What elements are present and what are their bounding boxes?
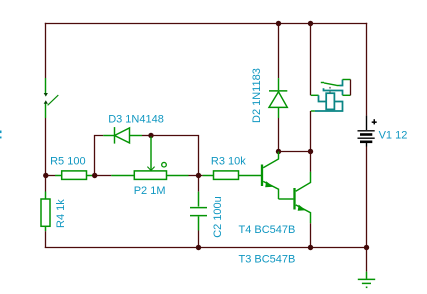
wire left rail lower	[45, 231, 47, 248]
diode D2	[269, 78, 287, 118]
node junction bottom-right	[364, 245, 369, 250]
node junction top-relay	[308, 21, 313, 26]
svg-text:D2 1N1183: D2 1N1183	[251, 68, 263, 123]
node junction T3-emitter-bottom	[308, 245, 313, 250]
node junction mid (P2/R3/C2)	[196, 173, 201, 178]
wire R5 left lead	[47, 175, 55, 177]
transistor T4	[261, 165, 263, 187]
svg-text:C2 100u: C2 100u	[212, 196, 224, 238]
capacitor C2	[190, 192, 207, 231]
node junction C2-bottom	[196, 245, 201, 250]
wire C2 top lead	[198, 178, 200, 192]
P2 circle marker	[162, 162, 167, 167]
wire left rail upper	[45, 23, 47, 78]
label fragment left edge	[0, 131, 2, 139]
node junction collector-right	[308, 149, 313, 154]
relay K1 contact	[321, 83, 340, 86]
wire left rail mid	[45, 118, 47, 175]
transistor T3	[293, 188, 295, 210]
wire C2 bottom lead	[198, 231, 200, 248]
ground	[358, 272, 375, 284]
svg-text:P2 1M: P2 1M	[134, 185, 166, 197]
wire ground stub	[366, 248, 368, 272]
node junction D3-right	[148, 133, 153, 138]
wire T3 collector upper	[310, 152, 312, 172]
node junction collector-left	[276, 149, 281, 154]
wire relay branch upper	[310, 24, 312, 96]
wire P2 right lead	[189, 175, 197, 177]
switch S	[45, 78, 47, 118]
wire P2 left lead	[97, 175, 112, 177]
P2 wiper arrow	[150, 137, 152, 171]
wire right rail lower	[366, 147, 368, 248]
wire D2 bottom lead	[278, 118, 280, 152]
wire R5 right lead	[92, 175, 95, 177]
resistor R5	[55, 171, 92, 180]
node junction top-D2	[276, 21, 281, 26]
wire left rail to R4	[45, 176, 47, 192]
wire T3 emitter lower	[310, 223, 312, 247]
resistor R4	[41, 192, 50, 232]
node junction left-mid	[43, 173, 48, 178]
wire R3 left lead	[199, 175, 203, 177]
svg-text:R4 1k: R4 1k	[55, 199, 67, 228]
svg-text:R3 10k: R3 10k	[211, 156, 246, 168]
resistor R3	[203, 171, 261, 180]
svg-text:T4 BC547B: T4 BC547B	[239, 224, 296, 236]
wire bottom rail	[45, 247, 367, 249]
wire D3 branch vertical	[95, 136, 104, 176]
wire D2 top lead	[278, 24, 280, 79]
relay dashed actuator line	[329, 87, 331, 93]
svg-text:V1 12: V1 12	[379, 130, 408, 142]
svg-text:T3 BC547B: T3 BC547B	[239, 254, 296, 266]
svg-text:R5 100: R5 100	[50, 156, 85, 168]
potentiometer P2	[111, 171, 188, 180]
wire D3 right lead	[142, 135, 151, 137]
relay contact link wires	[343, 80, 351, 96]
diode D3	[103, 127, 142, 144]
wire D3-node to R3-node	[151, 136, 199, 174]
wire relay branch lower	[310, 111, 312, 152]
battery V1	[358, 116, 375, 147]
svg-text:D3 1N4148: D3 1N4148	[108, 113, 164, 125]
wire collector rail	[279, 151, 311, 153]
wire top rail	[45, 23, 367, 25]
wire right rail upper	[366, 23, 368, 116]
relay K1 coil	[311, 94, 319, 96]
node junction R5-right	[92, 173, 97, 178]
